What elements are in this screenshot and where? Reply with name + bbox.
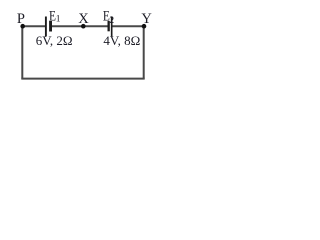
wire E1 to E2 <box>51 25 109 27</box>
node X <box>81 24 86 29</box>
wire E2 to Y <box>112 25 145 27</box>
svg-text:X: X <box>78 11 89 27</box>
battery E2 <box>108 16 112 36</box>
svg-text:4V, 8Ω: 4V, 8Ω <box>103 33 140 48</box>
wire P to E1 <box>21 25 46 27</box>
battery E1 <box>46 17 51 37</box>
svg-text:P: P <box>17 11 25 27</box>
wire right vertical <box>143 26 145 78</box>
svg-text:Y: Y <box>141 11 152 27</box>
node P <box>20 24 25 29</box>
svg-text:6V, 2Ω: 6V, 2Ω <box>36 33 73 48</box>
wire left vertical <box>21 26 23 78</box>
wire bottom <box>21 78 144 80</box>
node Y <box>142 24 147 29</box>
